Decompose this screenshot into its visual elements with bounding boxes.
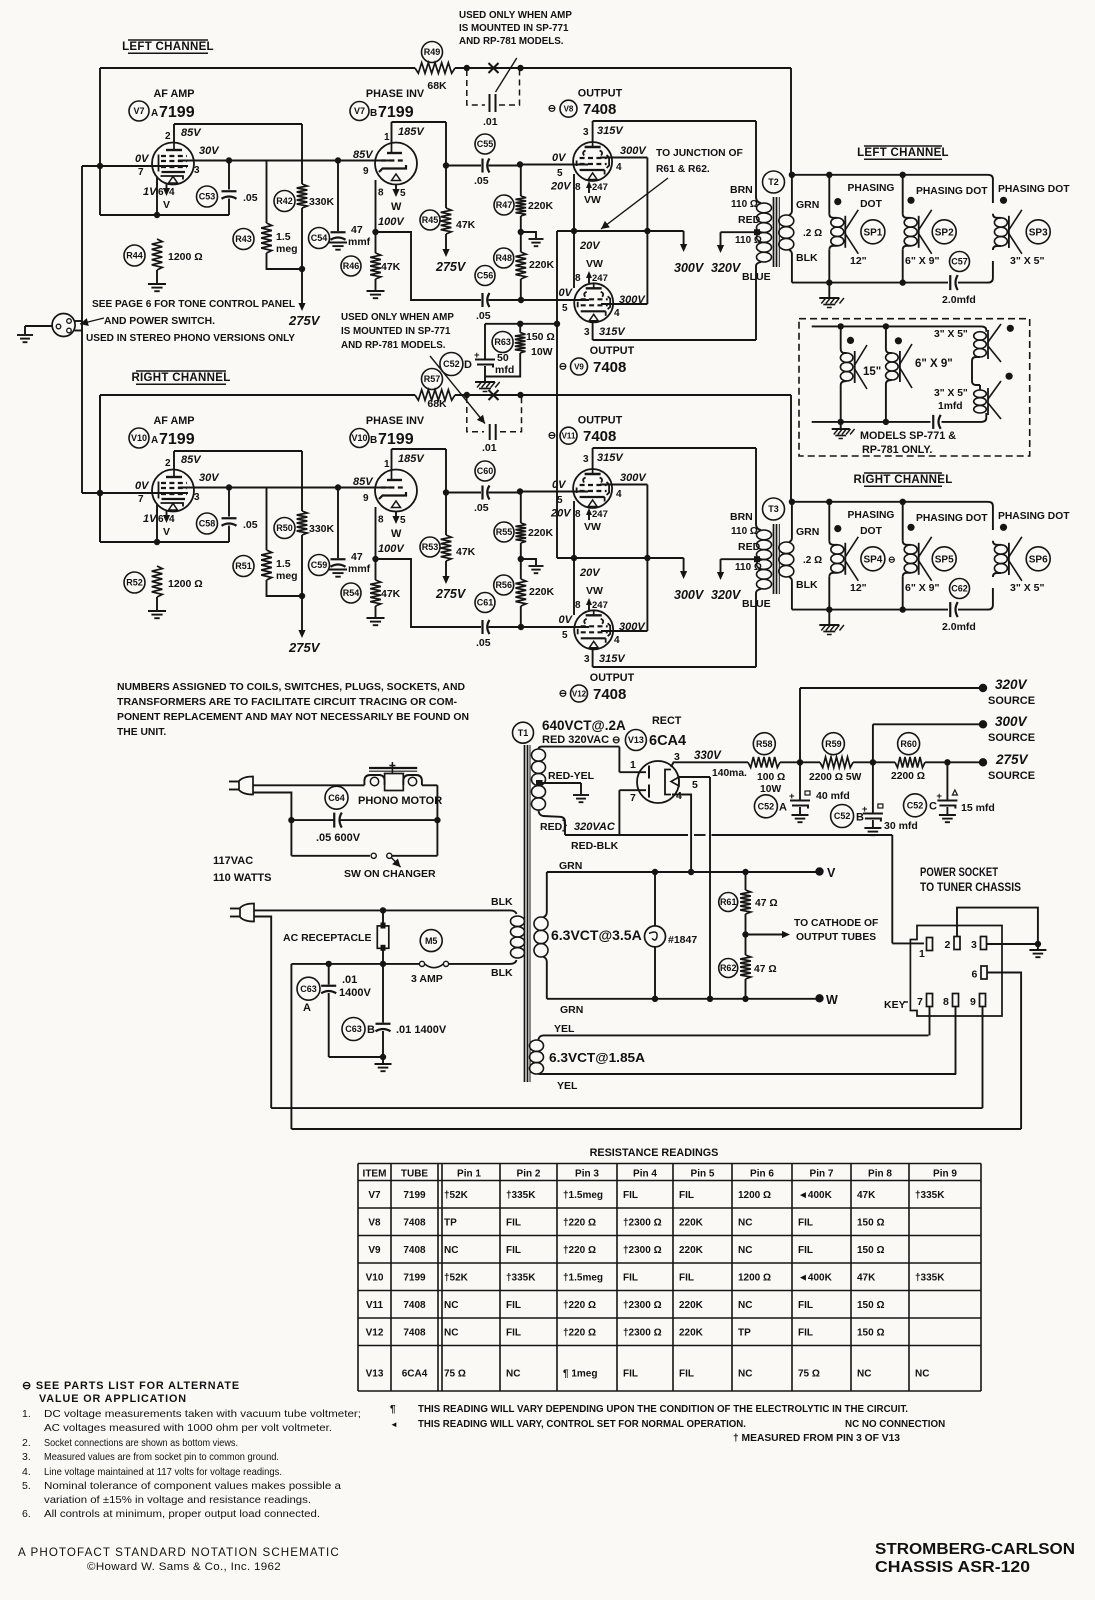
svg-text:9: 9 <box>363 166 369 177</box>
terminal 320V SOURCE <box>979 684 987 692</box>
svg-text:15": 15" <box>863 366 881 378</box>
phasing dot 2 <box>907 197 914 204</box>
svg-text:40 mfd: 40 mfd <box>816 790 850 802</box>
svg-text:A: A <box>151 435 158 446</box>
svg-text:V13: V13 <box>366 1369 384 1380</box>
svg-text:1: 1 <box>919 948 925 960</box>
svg-text:TUBE: TUBE <box>401 1169 429 1180</box>
heater top wire <box>547 871 820 873</box>
svg-text:100 Ω: 100 Ω <box>757 772 785 783</box>
node 275V takeoff <box>944 759 950 765</box>
svg-text:T2: T2 <box>768 177 779 187</box>
svg-text:W: W <box>391 528 402 540</box>
resistor R50 330K <box>301 451 303 511</box>
capacitor C63B .01 1400V <box>382 964 384 1023</box>
heater bottom wire <box>547 998 820 1000</box>
motor platter <box>369 767 417 769</box>
svg-text:30 mfd: 30 mfd <box>884 820 918 832</box>
svg-text:7: 7 <box>917 996 923 1008</box>
wire V13 heater pin4 <box>672 795 691 873</box>
terminal 300V SOURCE <box>979 720 987 728</box>
capacitor C59 47mmf <box>337 488 339 559</box>
phasing dot 1 <box>834 198 841 205</box>
cathode wire lower output <box>573 231 575 288</box>
svg-text:8: 8 <box>575 600 581 611</box>
svg-text:PHASING DOT: PHASING DOT <box>916 186 988 197</box>
svg-text:1: 1 <box>630 759 636 771</box>
svg-text:5: 5 <box>557 168 563 179</box>
svg-text:†335K: †335K <box>915 1272 945 1283</box>
svg-text:SOURCE: SOURCE <box>988 732 1035 744</box>
svg-text:†2300 Ω: †2300 Ω <box>623 1300 662 1311</box>
triode V10B 7199 phase inverter <box>375 470 417 512</box>
svg-text:†2300 Ω: †2300 Ω <box>623 1217 662 1228</box>
svg-text:6CA4: 6CA4 <box>402 1369 428 1380</box>
svg-text:⊖: ⊖ <box>559 362 567 373</box>
svg-text:M5: M5 <box>425 936 438 946</box>
svg-text:C54: C54 <box>311 233 328 243</box>
svg-text:Measured values are from socke: Measured values are from socket pin to c… <box>44 1451 279 1463</box>
svg-text:110 Ω: 110 Ω <box>731 526 758 537</box>
wire bus to socket pin6 <box>291 1128 1021 1130</box>
svg-text:TO TUNER CHASSIS: TO TUNER CHASSIS <box>920 882 1021 894</box>
svg-text:C62: C62 <box>951 584 968 594</box>
svg-text:6" X 9": 6" X 9" <box>915 358 953 370</box>
svg-text:6CA4: 6CA4 <box>649 733 686 749</box>
svg-text:7199: 7199 <box>403 1190 426 1201</box>
wire cathode <box>156 509 158 542</box>
svg-text:.01: .01 <box>483 116 498 128</box>
svg-text:300V: 300V <box>619 294 646 306</box>
svg-text:⊖: ⊖ <box>888 555 896 565</box>
svg-text:C60: C60 <box>477 466 494 476</box>
svg-text:330K: 330K <box>309 196 335 208</box>
svg-text:20V: 20V <box>579 240 601 252</box>
wire cathode phase inv <box>375 507 377 559</box>
capacitor C52A 40mfd <box>799 762 801 800</box>
svg-text:75 Ω: 75 Ω <box>798 1369 820 1380</box>
svg-text:R57: R57 <box>424 374 441 384</box>
capacitor C52D 50mfd electrolytic <box>484 324 486 359</box>
svg-text:SP5: SP5 <box>935 554 954 565</box>
svg-text:47: 47 <box>351 224 363 236</box>
svg-text:4: 4 <box>614 308 620 319</box>
AC receptacle symbol <box>377 926 389 948</box>
svg-text:RED: RED <box>738 541 761 553</box>
svg-text:V8: V8 <box>368 1217 381 1228</box>
svg-text:T3: T3 <box>768 504 779 514</box>
svg-text:RP-781 ONLY.: RP-781 ONLY. <box>862 444 932 456</box>
svg-text:30V: 30V <box>199 145 220 157</box>
svg-text:†335K: †335K <box>915 1190 945 1201</box>
svg-text:47K: 47K <box>381 261 401 273</box>
svg-text:247: 247 <box>592 182 608 193</box>
speaker SP5 6x9 <box>902 502 904 541</box>
svg-text:220K: 220K <box>679 1300 704 1311</box>
resistor R58 100ohm 10W <box>748 757 780 768</box>
beam power tube V8 7408 output upper <box>573 142 612 181</box>
svg-text:NC: NC <box>444 1245 458 1256</box>
svg-text:◄400K: ◄400K <box>798 1272 833 1283</box>
svg-text:V10: V10 <box>351 433 367 443</box>
svg-text:†52K: †52K <box>444 1190 469 1201</box>
ground tap of divider <box>521 559 536 565</box>
node grid input junction <box>97 490 103 496</box>
svg-text:3: 3 <box>674 751 680 763</box>
resistor R54 47K cathode <box>370 580 381 606</box>
svg-text:†2300 Ω: †2300 Ω <box>623 1245 662 1256</box>
wire socket pin6 down <box>987 973 1021 1130</box>
ground below C52D <box>475 381 495 383</box>
svg-text:V7: V7 <box>354 106 365 116</box>
svg-text:◄400K: ◄400K <box>798 1190 833 1201</box>
svg-text:5: 5 <box>692 779 698 791</box>
svg-text:2200 Ω: 2200 Ω <box>891 771 925 782</box>
wire secondary top to speaker bus <box>791 502 793 538</box>
capacitor 1mfd inset <box>932 415 934 429</box>
svg-text:NC NO CONNECTION: NC NO CONNECTION <box>845 1419 945 1430</box>
svg-text:R52: R52 <box>126 578 143 588</box>
svg-text:BLUE: BLUE <box>742 271 771 283</box>
socket pin 3 <box>981 937 987 950</box>
svg-text:C61: C61 <box>477 598 494 608</box>
svg-text:3" X 5": 3" X 5" <box>934 329 968 340</box>
svg-text:.01 1400V: .01 1400V <box>396 1024 447 1036</box>
svg-text:220K: 220K <box>528 527 554 539</box>
speaker 3x5 lower inset <box>974 390 987 398</box>
svg-text:BLUE: BLUE <box>742 598 771 610</box>
svg-text:⊖ SEE PARTS LIST FOR ALTERNATE: ⊖ SEE PARTS LIST FOR ALTERNATE <box>22 1380 240 1392</box>
svg-text:7408: 7408 <box>583 428 616 445</box>
svg-text:75 Ω: 75 Ω <box>444 1369 466 1380</box>
svg-text:1mfd: 1mfd <box>938 401 963 412</box>
svg-text:¶: ¶ <box>390 1404 396 1415</box>
svg-text:RIGHT CHANNEL: RIGHT CHANNEL <box>131 372 230 384</box>
capacitor C60 .05 coupling upper <box>446 492 481 494</box>
svg-text:PHASE INV: PHASE INV <box>366 88 425 100</box>
wire cathode <box>156 182 158 215</box>
svg-text:185V: 185V <box>398 126 425 138</box>
svg-text:†220 Ω: †220 Ω <box>563 1245 596 1256</box>
wire socket pin7 down to YEL <box>929 1007 931 1036</box>
svg-text:USED ONLY WHEN AMP: USED ONLY WHEN AMP <box>341 312 454 323</box>
wire feedback bus left drop <box>99 68 101 166</box>
wire socket pin2 loop over <box>957 908 1038 944</box>
svg-text:1V: 1V <box>143 513 158 525</box>
wire feedback bus right <box>100 394 415 396</box>
svg-text:50: 50 <box>497 352 509 364</box>
svg-text:220K: 220K <box>679 1327 704 1338</box>
resistor R56 220K divider lower <box>516 579 527 606</box>
svg-text:8: 8 <box>575 273 581 284</box>
resistor R49 68K feedback <box>415 63 455 74</box>
svg-text:SP4: SP4 <box>863 554 882 565</box>
svg-text:150 Ω: 150 Ω <box>857 1217 884 1228</box>
node 300V takeoff <box>870 759 876 765</box>
svg-text:7: 7 <box>138 167 144 178</box>
svg-text:8: 8 <box>378 515 384 526</box>
svg-text:PHASING DOT: PHASING DOT <box>998 511 1070 522</box>
svg-text:7408: 7408 <box>593 359 626 376</box>
svg-text:BLK: BLK <box>491 967 513 979</box>
speaker 15 inch inset <box>840 326 842 349</box>
svg-text:TP: TP <box>738 1327 751 1338</box>
svg-text:275V: 275V <box>435 260 467 274</box>
svg-text:0V: 0V <box>559 614 574 626</box>
svg-text:GRN: GRN <box>796 526 819 538</box>
heater2 bottom wire to socket pin8 <box>543 1073 956 1075</box>
svg-text:NC: NC <box>444 1300 458 1311</box>
capacitor C53 .05 plate bypass <box>228 161 230 190</box>
svg-text:mmf: mmf <box>348 236 371 248</box>
resistor R57 68K feedback <box>415 390 455 401</box>
svg-text:AND POWER SWITCH.: AND POWER SWITCH. <box>104 316 215 327</box>
svg-text:6.3VCT@1.85A: 6.3VCT@1.85A <box>549 1050 646 1065</box>
svg-text:8: 8 <box>943 996 949 1008</box>
speaker SP4 12 inch <box>828 502 830 541</box>
capacitor C58 .05 plate bypass <box>228 488 230 517</box>
plate wire lower to transformer bottom <box>592 649 594 667</box>
svg-text:2: 2 <box>165 458 171 469</box>
capacitor C63A .01 1400V <box>328 964 330 985</box>
svg-text:20V: 20V <box>579 567 601 579</box>
svg-text:.05: .05 <box>243 519 258 531</box>
speaker SP3 3x5 <box>994 218 1007 227</box>
wire to 275V supply with arrow <box>301 269 303 304</box>
svg-text:140ma.: 140ma. <box>712 768 747 779</box>
phono AC plug <box>239 777 253 795</box>
svg-text:C: C <box>929 801 937 813</box>
svg-text:.05: .05 <box>474 175 489 187</box>
wire secondary bottom to speaker ground bus <box>791 254 793 283</box>
svg-text:V12: V12 <box>572 689 587 698</box>
power transformer T1 <box>513 722 534 743</box>
svg-text:3: 3 <box>583 127 589 138</box>
ground below cathode 47K <box>367 290 385 292</box>
svg-text:C64: C64 <box>328 793 345 803</box>
svg-text:ITEM: ITEM <box>363 1169 387 1180</box>
svg-text:PHASING: PHASING <box>848 510 895 521</box>
svg-text:150 Ω: 150 Ω <box>526 331 555 343</box>
svg-text:8: 8 <box>575 182 581 193</box>
wire grid input <box>82 492 188 494</box>
svg-text:3: 3 <box>971 939 977 951</box>
primary winding <box>756 197 761 203</box>
svg-text:4.: 4. <box>22 1466 31 1478</box>
svg-text:247: 247 <box>592 600 608 611</box>
svg-text:RIGHT CHANNEL: RIGHT CHANNEL <box>853 474 952 486</box>
speaker SP2 6x9 <box>902 175 904 214</box>
svg-text:.05: .05 <box>476 637 491 649</box>
heater winding 6.3VCT 3.5A <box>546 872 548 912</box>
svg-text:NC: NC <box>738 1217 752 1228</box>
svg-text:}: } <box>562 817 567 832</box>
svg-text:.05: .05 <box>476 310 491 322</box>
svg-text:.2 Ω: .2 Ω <box>803 228 822 239</box>
svg-text:†1.5meg: †1.5meg <box>563 1190 603 1201</box>
socket pin 7 <box>927 994 933 1007</box>
table grid <box>358 1163 981 1165</box>
svg-text:10W: 10W <box>531 346 553 358</box>
svg-text:SEE PAGE 6 FOR TONE CONTROL PA: SEE PAGE 6 FOR TONE CONTROL PANEL <box>92 299 295 310</box>
dashed enclosure box <box>799 319 1030 456</box>
svg-text:20V: 20V <box>550 181 572 193</box>
svg-text:SP6: SP6 <box>1029 554 1048 565</box>
ground center tap <box>573 794 589 796</box>
svg-text:150 Ω: 150 Ω <box>857 1300 884 1311</box>
svg-text:C63: C63 <box>345 1024 362 1034</box>
phasing dot 2 <box>907 524 914 531</box>
svg-text:TRANSFORMERS ARE TO FACILITATE: TRANSFORMERS ARE TO FACILITATE CIRCUIT T… <box>117 697 458 708</box>
svg-text:SP1: SP1 <box>863 227 882 238</box>
ground below 47mmf cap <box>329 242 347 244</box>
svg-text:0V: 0V <box>552 152 567 164</box>
socket pin 8 <box>953 994 959 1007</box>
svg-text:3" X 5": 3" X 5" <box>1010 255 1044 267</box>
svg-text:185V: 185V <box>398 453 425 465</box>
svg-text:V10: V10 <box>366 1272 384 1283</box>
wire plug to motor <box>253 784 364 786</box>
svg-text:3: 3 <box>583 454 589 465</box>
wire cathode output 330V rail <box>671 762 748 767</box>
svg-text:1200 Ω: 1200 Ω <box>738 1190 771 1201</box>
svg-text:BRN: BRN <box>730 184 753 196</box>
svg-text:300V: 300V <box>995 714 1028 729</box>
svg-text:AF AMP: AF AMP <box>154 415 195 427</box>
wire motor right down <box>422 784 438 786</box>
svg-text:V11: V11 <box>366 1300 384 1311</box>
wire socket pin3 to ground <box>987 943 1038 945</box>
svg-text:IS MOUNTED IN SP-771: IS MOUNTED IN SP-771 <box>459 23 569 34</box>
svg-text:R61 & R62.: R61 & R62. <box>656 164 710 175</box>
svg-text:meg: meg <box>276 570 298 582</box>
svg-text:PHASING DOT: PHASING DOT <box>916 513 988 524</box>
wire to 275V supply with arrow <box>301 596 303 631</box>
svg-text:AF AMP: AF AMP <box>154 88 195 100</box>
svg-text:Line voltage maintained at 117: Line voltage maintained at 117 volts for… <box>44 1466 282 1478</box>
svg-text:NC: NC <box>915 1369 929 1380</box>
arrow to 300V source <box>683 231 685 245</box>
svg-text:7199: 7199 <box>159 431 195 448</box>
svg-text:YEL: YEL <box>557 1080 578 1092</box>
transformer T2 output <box>763 171 785 193</box>
svg-text:FIL: FIL <box>679 1369 694 1380</box>
svg-text:C52: C52 <box>834 811 851 821</box>
secondary winding <box>789 538 792 542</box>
svg-text:7408: 7408 <box>403 1217 426 1228</box>
svg-text:9: 9 <box>970 996 976 1008</box>
center tap wire 320V <box>721 558 758 560</box>
svg-text:V11: V11 <box>562 432 576 441</box>
svg-text:⊖: ⊖ <box>548 431 556 442</box>
socket pin 6 <box>981 966 987 979</box>
svg-text:FIL: FIL <box>798 1217 813 1228</box>
svg-text:SW ON CHANGER: SW ON CHANGER <box>344 868 436 880</box>
pin2 plate lead to 85V <box>173 124 175 143</box>
switch arm diagonal <box>496 58 517 92</box>
svg-text:V9: V9 <box>574 362 584 371</box>
socket pin 1 <box>927 938 933 951</box>
svg-text:FIL: FIL <box>679 1190 694 1201</box>
wire V13 heater pin5 <box>679 776 710 778</box>
svg-text:315V: 315V <box>599 326 626 338</box>
svg-text:5: 5 <box>562 303 568 314</box>
svg-text:mmf: mmf <box>348 563 371 575</box>
svg-text:R59: R59 <box>825 739 842 749</box>
inset top bus <box>812 326 987 331</box>
junction dots on feedback bus <box>464 392 470 398</box>
svg-text:7: 7 <box>630 792 636 804</box>
link between 3x5 speakers <box>972 357 980 390</box>
arrow to 275V <box>445 234 447 250</box>
svg-text:Pin 4: Pin 4 <box>633 1169 657 1180</box>
svg-text:OUTPUT: OUTPUT <box>578 415 623 427</box>
svg-text:LEFT CHANNEL: LEFT CHANNEL <box>122 41 214 53</box>
svg-text:AC RECEPTACLE: AC RECEPTACLE <box>283 932 371 944</box>
svg-text:V7: V7 <box>133 106 144 116</box>
wire secondary top to speaker bus <box>791 175 793 211</box>
transformer T3 output <box>763 498 785 520</box>
wire stereo input jack vertical <box>81 166 83 493</box>
svg-text:C52: C52 <box>907 801 924 811</box>
ground speaker bus <box>828 283 830 297</box>
svg-text:RESISTANCE READINGS: RESISTANCE READINGS <box>590 1147 719 1159</box>
svg-text:V13: V13 <box>628 735 644 745</box>
svg-text:DC voltage measurements taken: DC voltage measurements taken with vacuu… <box>44 1408 361 1420</box>
svg-text:1.: 1. <box>22 1408 31 1420</box>
resistor R44 1200 ohm cathode <box>152 239 163 270</box>
wire AC plug lower to bus <box>254 917 271 1109</box>
svg-text:315V: 315V <box>597 125 624 137</box>
svg-text:©Howard W. Sams & Co., Inc. 19: ©Howard W. Sams & Co., Inc. 1962 <box>87 1561 281 1573</box>
speaker 3x5 upper inset <box>974 332 987 340</box>
svg-text:R56: R56 <box>495 580 512 590</box>
ground below cathode 47K <box>367 617 385 619</box>
wire feedback bus drop to speaker bus right <box>790 395 792 502</box>
svg-text:220K: 220K <box>529 586 555 598</box>
terminal W <box>815 994 823 1002</box>
svg-text:NUMBERS ASSIGNED TO COILS, SWI: NUMBERS ASSIGNED TO COILS, SWITCHES, PLU… <box>117 682 465 693</box>
speaker bottom bus <box>792 609 948 611</box>
junction dots on feedback bus <box>464 65 470 71</box>
plate lead pin 1 <box>391 122 393 143</box>
svg-text:7199: 7199 <box>378 431 414 448</box>
svg-text:LEFT CHANNEL: LEFT CHANNEL <box>857 147 949 159</box>
svg-text:3: 3 <box>584 327 590 338</box>
svg-text:+: + <box>474 350 480 361</box>
svg-text:R61: R61 <box>720 897 737 907</box>
svg-text:FIL: FIL <box>623 1272 638 1283</box>
svg-text:A: A <box>779 802 787 814</box>
svg-text:TO CATHODE OF: TO CATHODE OF <box>794 918 878 929</box>
capacitor C56 .05 coupling lower <box>481 293 483 307</box>
svg-text:3" X 5": 3" X 5" <box>934 388 968 399</box>
svg-text:PHASING DOT: PHASING DOT <box>998 184 1070 195</box>
svg-text:320VAC: 320VAC <box>574 821 616 833</box>
svg-text:7408: 7408 <box>593 686 626 703</box>
wire plate 30V output <box>178 160 390 162</box>
svg-text:† MEASURED FROM PIN 3 OF V1: † MEASURED FROM PIN 3 OF V13 <box>733 1433 901 1444</box>
svg-text:mfd: mfd <box>495 364 514 376</box>
svg-text:30V: 30V <box>199 472 220 484</box>
svg-text:R58: R58 <box>756 739 773 749</box>
svg-text:RED-YEL: RED-YEL <box>548 770 595 782</box>
svg-text:A: A <box>303 1002 311 1014</box>
svg-text:6: 6 <box>158 187 164 198</box>
inset bottom bus <box>812 421 931 423</box>
resistor R52 1200 ohm cathode <box>152 566 163 597</box>
HV center tap RED-YEL <box>536 780 543 787</box>
